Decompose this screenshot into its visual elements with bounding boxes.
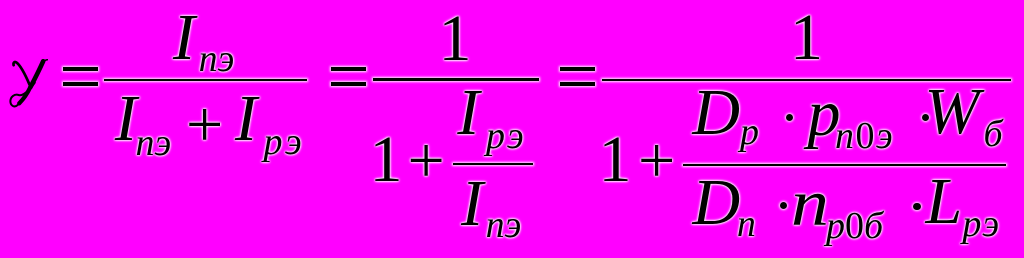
- equals sign 1 bottom bar: [63, 82, 99, 87]
- equals sign 3 bottom bar: [560, 82, 595, 87]
- injection efficiency symbol gamma: [9, 59, 48, 108]
- diffusion length L: [926, 169, 963, 235]
- diffusion coefficient D (denominator): [693, 170, 741, 236]
- subscript pэ of L: [962, 205, 1000, 243]
- numerator digit 1 (second fraction): [439, 6, 472, 72]
- plus sign in denominator 3: [638, 128, 675, 194]
- equals sign 2 bottom bar: [331, 82, 367, 87]
- subscript p0б of n: [826, 207, 883, 245]
- subscript p of D: [740, 113, 759, 151]
- equals sign 1 top bar: [63, 67, 99, 71]
- hole concentration p: [808, 81, 841, 147]
- nested fraction bar (third fraction): [683, 164, 1006, 167]
- fraction bar 3: [602, 79, 1011, 82]
- diffusion coefficient D (numerator): [692, 80, 740, 146]
- subscript n0э of p: [835, 117, 894, 155]
- multiplication dot (denominator, second): [913, 203, 921, 211]
- numerator digit 1 (third fraction): [790, 5, 823, 71]
- denominator digit 1 (second fraction): [370, 127, 403, 193]
- subscript nэ of denominator I: [136, 124, 172, 162]
- subscript nэ of nested denominator I: [486, 206, 522, 244]
- fraction bar 1: [104, 79, 307, 82]
- multiplication dot (numerator, second): [922, 114, 930, 122]
- plus sign in denominator 1: [186, 92, 223, 158]
- denominator digit 1 (third fraction): [599, 127, 632, 193]
- denominator 1: second I: [235, 86, 257, 152]
- nested denominator I (second fraction): [461, 171, 483, 237]
- equals sign 2 top bar: [331, 67, 367, 71]
- numerator 1: current I with subscript nэ: [173, 5, 195, 71]
- nested numerator I (second fraction): [457, 80, 479, 146]
- fraction bar 2: [373, 78, 539, 81]
- subscript nэ of numerator I: [199, 40, 235, 78]
- subscript n of D: [737, 205, 756, 243]
- subscript б of W: [984, 115, 1003, 153]
- subscript pэ of denominator I: [264, 123, 305, 161]
- multiplication dot (numerator, first): [786, 114, 794, 122]
- denominator 1: first I: [115, 86, 137, 152]
- equals sign 3 top bar: [560, 67, 595, 71]
- subscript pэ of nested numerator I: [486, 117, 526, 155]
- electron concentration n: [791, 171, 829, 237]
- multiplication dot (denominator, first): [780, 202, 788, 210]
- nested fraction bar (second fraction): [453, 163, 533, 166]
- plus sign in denominator 2: [408, 128, 445, 194]
- base width W: [925, 79, 980, 145]
